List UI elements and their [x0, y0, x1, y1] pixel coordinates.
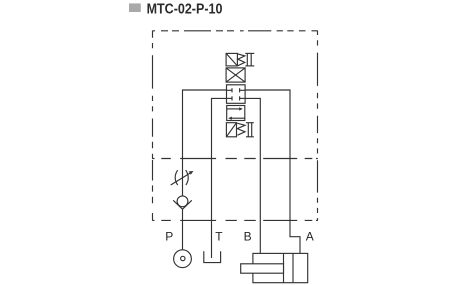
cylinder piston	[283, 253, 285, 282]
module outline dashed box: left edge	[152, 31, 154, 221]
flow arrows box	[227, 106, 245, 121]
tank symbol	[204, 251, 221, 262]
module interface dashed line	[152, 158, 317, 160]
wire lower-right (B side)	[245, 98, 260, 253]
port stub lower right	[240, 97, 246, 99]
throttle valve arcs	[175, 170, 178, 185]
svg-text:B: B	[244, 230, 252, 244]
module outline dashed box: bottom edge	[152, 219, 317, 221]
wire lower-left (T side)	[212, 98, 227, 258]
check-throttle unit V2 diagonal	[226, 123, 236, 137]
cylinder body	[253, 253, 308, 282]
svg-text:T: T	[215, 230, 223, 244]
check-throttle unit V1 diagonal	[226, 53, 237, 66]
svg-text:P: P	[165, 230, 173, 244]
svg-text:MTC-02-P-10: MTC-02-P-10	[147, 0, 223, 17]
port stub upper left	[227, 89, 233, 91]
check-throttle unit V1 spring	[237, 54, 244, 66]
pump circle	[174, 250, 192, 268]
module outline dashed box: right edge	[317, 31, 319, 221]
title bullet square	[129, 3, 141, 12]
check-throttle unit V2 box	[226, 123, 236, 137]
check valve seat	[173, 200, 192, 209]
svg-text:A: A	[306, 230, 314, 244]
check-throttle unit V2 spring	[237, 123, 246, 135]
check-throttle unit V1 box	[226, 53, 237, 66]
arrow right head	[239, 107, 243, 110]
wire upper-left (P side)	[183, 90, 227, 196]
throttle arrow head	[189, 171, 194, 175]
check-throttle unit V2 seat bars II	[246, 122, 254, 124]
port stub lower left	[227, 97, 233, 99]
arrow right	[227, 108, 241, 110]
port stub upper right	[240, 89, 246, 91]
throttle valve arrow	[171, 172, 192, 185]
check-throttle unit V1 seat bars II	[245, 52, 254, 54]
cylinder rod	[241, 264, 284, 273]
closed crossing box	[226, 68, 245, 82]
check valve ball	[177, 196, 188, 207]
arrow left	[230, 117, 245, 119]
wire P riser lower	[182, 209, 184, 250]
arrow left head	[228, 117, 232, 120]
port interface box	[227, 85, 246, 104]
module outline dashed box: top edge	[152, 30, 317, 32]
wire upper-right (A side)	[245, 90, 300, 253]
pump inner circle	[181, 256, 185, 260]
